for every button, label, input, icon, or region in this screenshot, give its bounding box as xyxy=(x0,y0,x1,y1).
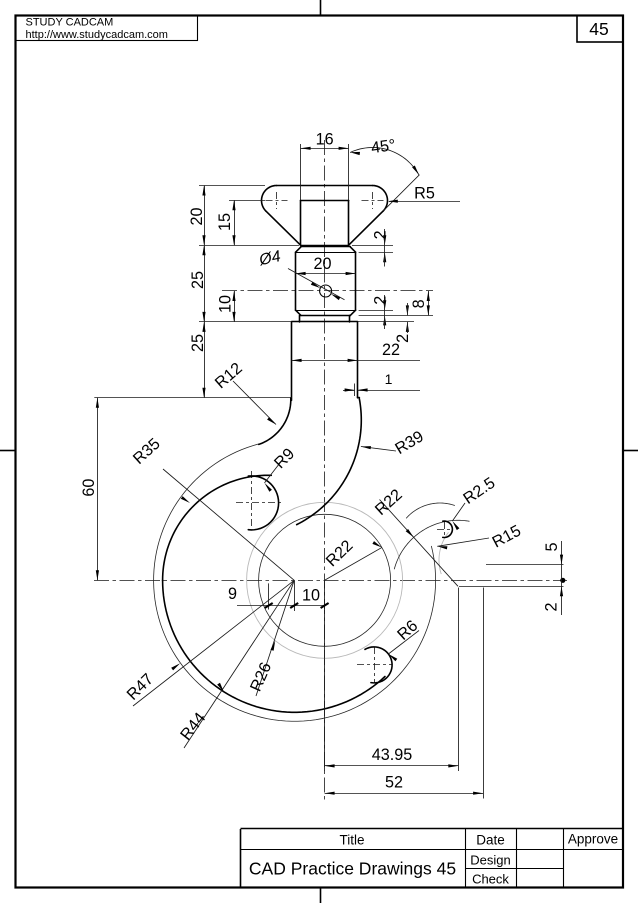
svg-text:25: 25 xyxy=(189,271,207,289)
svg-text:45°: 45° xyxy=(370,136,397,157)
svg-text:Check: Check xyxy=(472,871,509,886)
svg-text:20: 20 xyxy=(313,255,331,273)
svg-text:R26: R26 xyxy=(247,660,276,694)
svg-text:R22: R22 xyxy=(372,486,406,519)
svg-text:R15: R15 xyxy=(489,522,524,552)
svg-text:STUDY CADCAM: STUDY CADCAM xyxy=(26,17,114,29)
svg-text:15: 15 xyxy=(216,213,234,231)
svg-text:1: 1 xyxy=(385,371,393,387)
svg-text:Ø4: Ø4 xyxy=(257,248,282,269)
svg-text:CAD Practice Drawings 45: CAD Practice Drawings 45 xyxy=(249,859,456,879)
svg-text:16: 16 xyxy=(316,131,334,149)
svg-text:22: 22 xyxy=(382,341,400,359)
svg-text:2: 2 xyxy=(372,230,390,239)
svg-text:R6: R6 xyxy=(394,617,421,644)
svg-text:43.95: 43.95 xyxy=(372,746,413,764)
svg-text:60: 60 xyxy=(80,479,98,497)
svg-text:9: 9 xyxy=(228,585,237,603)
svg-text:45: 45 xyxy=(589,19,608,39)
svg-text:Title: Title xyxy=(339,833,364,848)
svg-text:Date: Date xyxy=(476,833,505,848)
svg-text:20: 20 xyxy=(188,207,206,225)
svg-text:http://www.studycadcam.com: http://www.studycadcam.com xyxy=(26,29,168,41)
svg-text:52: 52 xyxy=(385,774,403,792)
svg-text:R39: R39 xyxy=(392,427,427,458)
svg-text:25: 25 xyxy=(189,334,207,352)
svg-text:R47: R47 xyxy=(123,670,157,704)
svg-text:8: 8 xyxy=(410,299,428,308)
svg-text:2: 2 xyxy=(543,602,561,611)
svg-text:R9: R9 xyxy=(271,445,298,472)
svg-text:5: 5 xyxy=(543,542,561,551)
svg-text:Design: Design xyxy=(470,852,510,867)
svg-text:2: 2 xyxy=(371,296,389,305)
svg-text:R12: R12 xyxy=(212,359,246,392)
svg-text:10: 10 xyxy=(217,295,235,313)
svg-text:10: 10 xyxy=(302,587,320,605)
svg-text:R44: R44 xyxy=(177,709,209,743)
svg-text:Approve: Approve xyxy=(568,832,618,847)
svg-text:R2.5: R2.5 xyxy=(460,474,498,508)
svg-text:R5: R5 xyxy=(414,185,435,203)
svg-text:R35: R35 xyxy=(130,435,164,468)
